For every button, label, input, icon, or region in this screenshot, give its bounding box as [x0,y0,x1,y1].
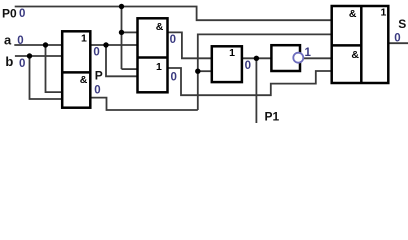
wire riser x=197.8 up to long wire to U4 pin2 [198,34,332,110]
node: junction dot on riser feeding U3 pin2 [195,69,200,74]
svg-text:0: 0 [93,46,99,58]
wire P0 branch down at x=121.5 [121,7,123,70]
svg-text:1: 1 [305,47,312,59]
wire U3 output to NOT gate U5 [242,57,272,59]
svg-text:0: 0 [17,35,23,47]
node: junction dot on b [27,53,32,58]
wire P0 branch into U2 pin3 [122,68,138,70]
node: junction dot on P0 at x=121.5 [119,4,124,9]
gate U3 (OR "1") box [212,46,242,82]
svg-text:1: 1 [380,7,386,19]
wire P0 horizontal with jog down to U4 pin1 [15,7,332,21]
node: junction dot on U1 output [103,42,108,47]
svg-text:1: 1 [81,33,87,45]
svg-text:0: 0 [245,60,251,72]
node: junction dot P0/U2 pin1 [119,30,124,35]
wire U5 output to U4 pin3 [303,57,332,59]
gate U4 (AND-OR "&","&","1") box [332,6,389,83]
gate U5 inverter bubble [293,53,303,63]
wire b branch down into U1 pin4 [30,56,63,99]
wire a branch down into U1 pin3 [46,45,63,92]
svg-text:S: S [398,17,406,31]
wire output S [389,42,408,44]
svg-text:0: 0 [394,33,400,45]
svg-text:0: 0 [170,34,176,46]
svg-text:0: 0 [19,8,25,20]
svg-text:b: b [5,54,13,69]
svg-text:P1: P1 [265,109,280,123]
svg-text:&: & [80,74,88,86]
node: junction dot on U3 output / P1 [254,56,259,61]
svg-text:0: 0 [94,84,100,96]
gate U2 (AND "&" / OR "1") box [138,18,168,92]
svg-text:1: 1 [156,61,162,73]
svg-text:&: & [349,8,357,20]
node: junction dot on a [43,42,48,47]
wire P0 branch into U2 pin1 [122,31,138,33]
svg-text:P: P [95,69,103,83]
wire P1 drop from U3 output node [255,58,257,123]
wire U2 bottom output staircase to U4 pin4 [168,68,332,95]
svg-text:0: 0 [171,72,177,84]
gate U5 (NOT) box [271,45,300,71]
svg-text:&: & [351,49,359,61]
wire U1 top output branch down to U2 pin4 [106,45,138,76]
wire U2 top output down to U3 pin1 [168,32,212,58]
wire branch from riser into U3 pin2 [198,70,212,72]
svg-text:P0: P0 [2,7,17,21]
gate U1 (OR "1" / AND "&") box [62,31,90,107]
svg-text:a: a [4,33,12,48]
wire input a [14,44,62,46]
wire U1 bottom output long bottom run [90,98,198,110]
svg-text:0: 0 [19,58,25,70]
svg-text:1: 1 [229,47,235,59]
wire U1 top output to U2 pin2 [90,44,137,46]
svg-text:&: & [156,21,164,33]
wire input b [15,55,62,57]
